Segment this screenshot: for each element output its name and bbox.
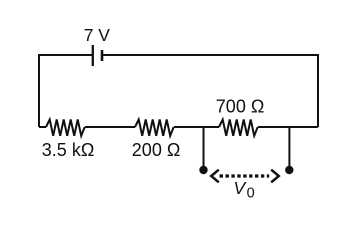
- svg-text:3.5 kΩ: 3.5 kΩ: [42, 140, 94, 160]
- svg-text:200 Ω: 200 Ω: [132, 140, 181, 160]
- svg-text:7 V: 7 V: [84, 25, 111, 45]
- svg-text:0: 0: [247, 186, 255, 202]
- svg-text:700 Ω: 700 Ω: [216, 97, 264, 117]
- svg-text:V: V: [234, 178, 248, 198]
